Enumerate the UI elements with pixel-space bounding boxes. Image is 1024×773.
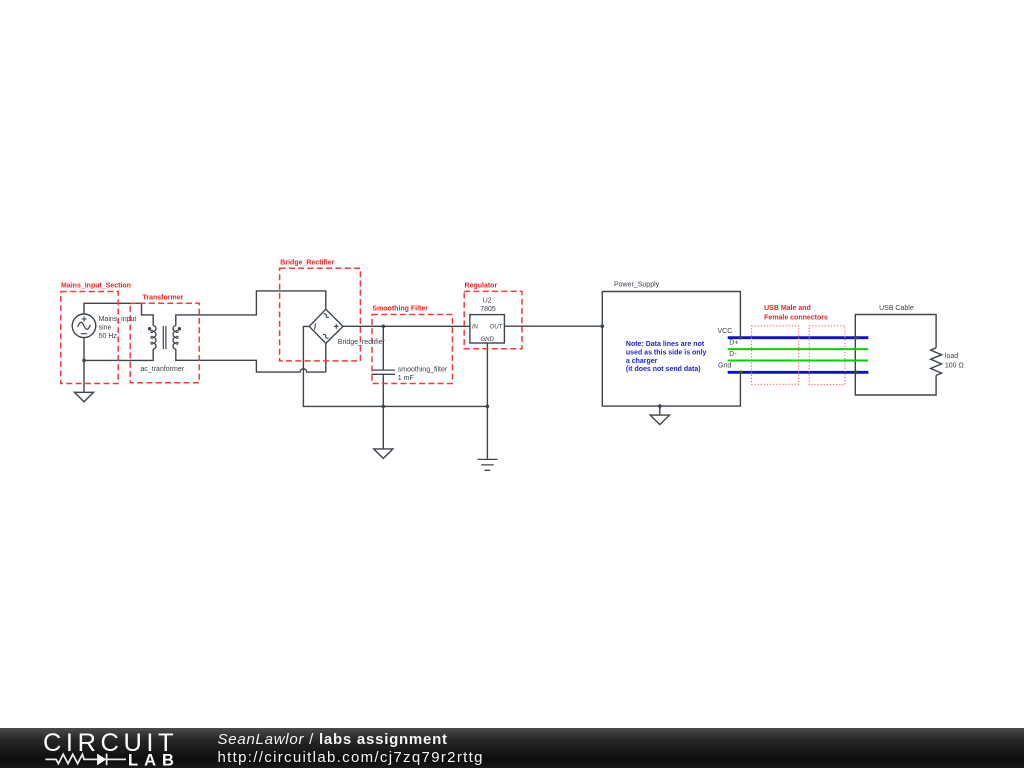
node junction power supply ground — [658, 404, 662, 408]
wire D+ (green) — [728, 348, 868, 350]
svg-text:ac_tranformer: ac_tranformer — [141, 366, 185, 373]
svg-text:D-: D- — [729, 351, 737, 358]
node junction at power supply input — [601, 324, 605, 328]
footer bar — [0, 728, 1024, 768]
svg-text:(it does not send data): (it does not send data) — [626, 366, 701, 373]
svg-text:Mains_Input_Section: Mains_Input_Section — [61, 283, 131, 290]
wire regulator GND pin down — [486, 343, 488, 459]
capacitor C1 plates — [372, 370, 395, 374]
svg-text:U2: U2 — [483, 298, 492, 305]
svg-text:used as this side is only: used as this side is only — [626, 349, 707, 356]
bridge rectifier D1 Bridge_rectifier — [309, 309, 343, 343]
annotation box Transformer — [130, 303, 199, 383]
footer title text — [218, 731, 448, 748]
voltage source Mains_input (sine) — [72, 314, 96, 338]
svg-text:LAB: LAB — [128, 752, 180, 768]
svg-text:1 mF: 1 mF — [398, 375, 414, 382]
wire source bottom to ground — [83, 338, 85, 393]
logo resistor and diode glyph — [45, 754, 126, 766]
svg-text:VCC: VCC — [718, 328, 733, 335]
svg-text:smoothing_filter: smoothing_filter — [398, 366, 448, 373]
wire Gnd (blue) — [728, 371, 869, 374]
node junction gnd rail / regulator — [486, 405, 490, 409]
ground symbol (power supply) — [650, 415, 669, 425]
svg-text:Smoothing Filter: Smoothing Filter — [372, 306, 428, 313]
svg-text:USB Male and: USB Male and — [764, 305, 811, 312]
node junction cap/rail — [382, 405, 386, 409]
transformer T1 ac_tranformer — [148, 326, 181, 349]
footer url text — [218, 749, 484, 766]
annotation box Smoothing Filter — [372, 315, 452, 384]
ground symbol (smoothing) — [374, 449, 393, 459]
CircuitLab logo — [43, 729, 180, 769]
wire VCC (blue) — [728, 336, 869, 339]
svg-text:USB Cable: USB Cable — [879, 305, 914, 312]
wire transformer secondary bottom to bridge AC2 (with hop over negative rail) — [176, 349, 326, 372]
wire power supply ground stub — [659, 406, 661, 415]
node junction VCC pin — [739, 336, 743, 340]
svg-text:load: load — [945, 353, 958, 360]
svg-text:Transformer: Transformer — [143, 294, 184, 301]
ground symbol (mains) — [74, 392, 93, 402]
svg-text:Bridge_Rectifier: Bridge_Rectifier — [280, 260, 334, 267]
regulator U2 7805 box — [470, 315, 505, 343]
wire D- (green) — [728, 360, 868, 362]
svg-text:D+: D+ — [729, 340, 738, 347]
annotation box Regulator — [464, 291, 522, 348]
node junction Gnd pin — [739, 371, 743, 375]
wire bridge positive vertex to regulator IN — [343, 325, 470, 327]
resistor load 100 ohm — [931, 348, 942, 376]
svg-text:Female connectors: Female connectors — [764, 314, 828, 321]
annotation box USB male connector — [752, 326, 799, 385]
svg-text:GND: GND — [481, 337, 495, 343]
capacitor C1 lead bottom — [382, 374, 384, 449]
svg-text:Note: Data lines are not: Note: Data lines are not — [626, 341, 705, 348]
node junction cap top — [382, 325, 386, 329]
wire transformer secondary top to bridge AC1 — [176, 291, 326, 326]
capacitor C1 smoothing_filter lead top — [382, 326, 384, 370]
annotation box USB female connector — [809, 326, 845, 385]
svg-text:50 Hz: 50 Hz — [99, 333, 118, 340]
svg-text:Regulator: Regulator — [465, 283, 498, 290]
annotation box Mains_Input_Section — [61, 292, 118, 384]
svg-text:IN: IN — [472, 325, 479, 331]
wire bridge bottom vertex down — [325, 343, 327, 372]
wire bridge negative vertex to ground rail — [303, 326, 487, 406]
wire bottom node to transformer primary bottom — [84, 349, 153, 360]
node junction Gnd at cable — [854, 371, 858, 375]
earth ground symbol (regulator) — [477, 459, 497, 470]
svg-text:OUT: OUT — [490, 325, 504, 331]
svg-text:7805: 7805 — [480, 306, 496, 313]
node junction VCC at cable — [854, 336, 858, 340]
svg-text:100 Ω: 100 Ω — [945, 362, 964, 369]
svg-text:a charger: a charger — [626, 358, 658, 365]
svg-text:sine: sine — [99, 325, 112, 332]
wire regulator OUT to power supply — [504, 325, 602, 327]
wire source top to transformer primary — [84, 303, 153, 325]
svg-text:Power_Supply: Power_Supply — [614, 282, 660, 289]
box USB Cable — [855, 315, 936, 396]
svg-text:Bridge_rectifier: Bridge_rectifier — [338, 339, 386, 346]
node junction at source bottom — [82, 359, 86, 363]
subcircuit box Power_Supply — [602, 292, 740, 407]
svg-text:Mains_input: Mains_input — [99, 316, 137, 323]
svg-text:Gnd: Gnd — [718, 363, 731, 370]
annotation box Bridge_Rectifier — [280, 268, 361, 361]
